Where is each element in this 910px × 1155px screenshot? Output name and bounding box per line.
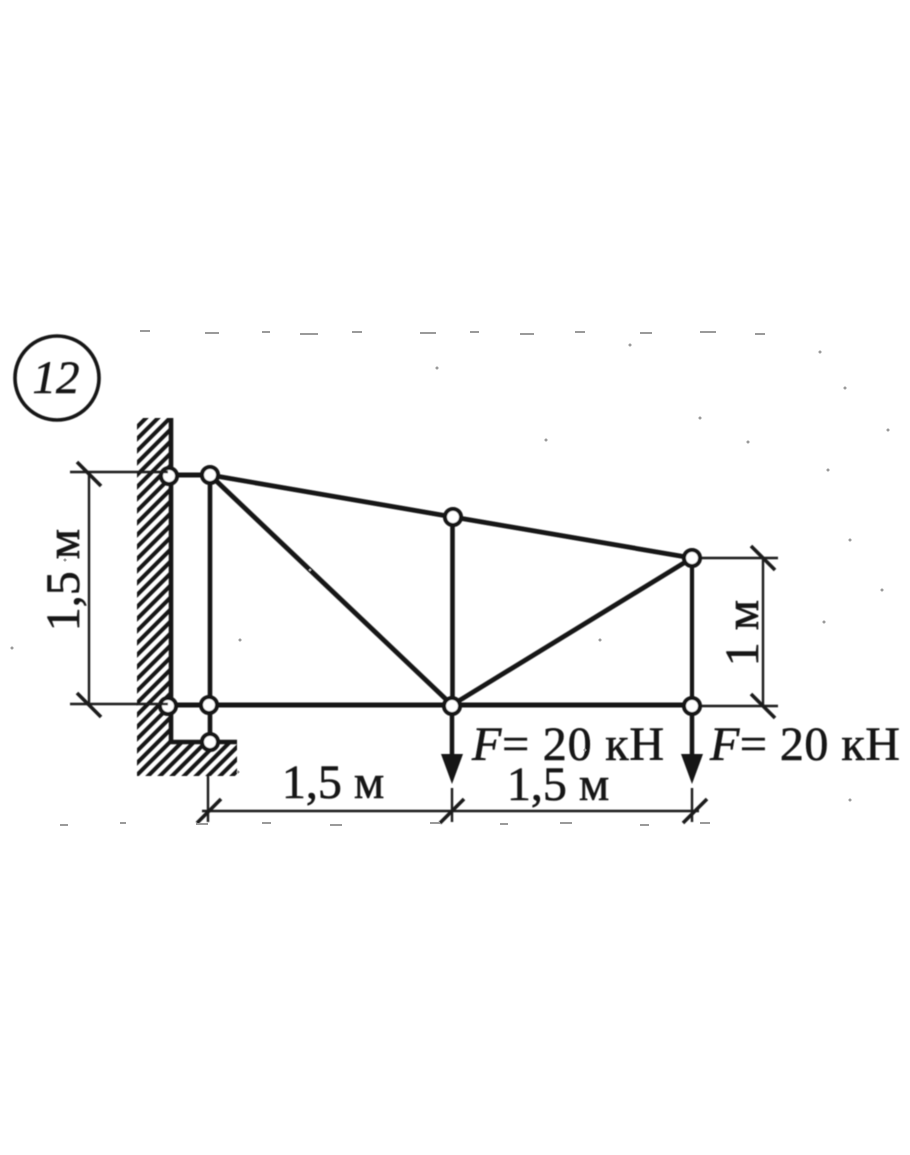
svg-text:1,5 м: 1,5 м xyxy=(282,756,384,809)
member: middle vertical xyxy=(450,517,455,705)
node top-left joint xyxy=(202,467,218,483)
node bottom-left joint xyxy=(201,697,217,713)
node bracket pin xyxy=(202,734,218,750)
member: diagonal left xyxy=(210,475,452,705)
member: left vertical xyxy=(208,475,213,705)
svg-text:1,5 м: 1,5 м xyxy=(37,529,90,631)
svg-text:1,5 м: 1,5 м xyxy=(507,758,609,811)
node bottom middle joint xyxy=(444,698,460,714)
wall hatching xyxy=(137,418,237,776)
member: top chord xyxy=(210,475,692,558)
member: bottom support link xyxy=(208,705,213,742)
scan noise speckles xyxy=(11,330,890,826)
node bottom wall pin xyxy=(160,698,176,714)
node top middle joint xyxy=(445,509,461,525)
svg-text:12: 12 xyxy=(33,352,80,404)
right dimension 1 m xyxy=(702,546,778,718)
force arrow at right node xyxy=(681,715,703,784)
figure number circle 12 xyxy=(15,336,99,420)
node bottom right joint xyxy=(684,698,700,714)
left dimension 1,5 m xyxy=(37,462,168,717)
member: top wall link xyxy=(168,473,210,478)
member: bottom chord xyxy=(168,703,692,708)
node top wall pin xyxy=(161,468,177,484)
member: right vertical xyxy=(690,558,694,705)
bottom dimension line xyxy=(197,756,707,823)
force arrow at middle node xyxy=(441,714,463,784)
bracket line xyxy=(169,740,237,745)
svg-text:1 м: 1 м xyxy=(716,600,769,666)
wall edge line xyxy=(169,418,174,742)
member: diagonal right xyxy=(452,558,692,705)
node top right joint xyxy=(684,550,700,566)
svg-text:F= 20 кН: F= 20 кН xyxy=(709,718,900,771)
